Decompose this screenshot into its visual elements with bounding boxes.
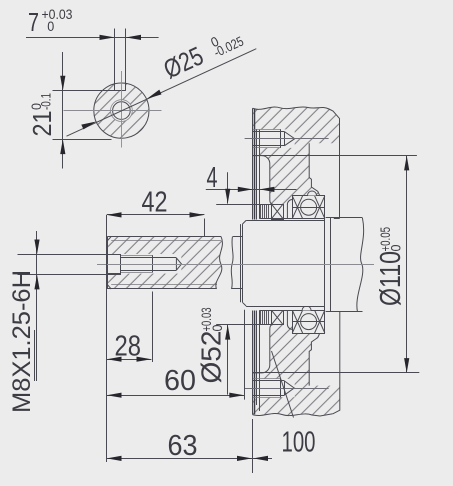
extension line bottom tangent for 21 xyxy=(53,139,112,141)
svg-text:60: 60 xyxy=(164,365,196,397)
hub left chamfers xyxy=(242,220,246,306)
extension line for 28 xyxy=(152,292,154,363)
upper seal retainer lip xyxy=(287,200,292,219)
hub top edge xyxy=(246,220,325,222)
lower ball bearing xyxy=(292,306,325,334)
dimension d110 line xyxy=(406,156,408,373)
svg-text:0: 0 xyxy=(47,19,54,34)
dimension 63 left arrow xyxy=(107,456,122,461)
seal lip hatch lines lower xyxy=(261,310,269,324)
upper bolt hole xyxy=(253,129,295,148)
dimension 21 top arrow xyxy=(60,76,65,91)
main axis centerline xyxy=(97,264,374,266)
seal lip hatch lines upper xyxy=(261,204,269,218)
upper pocket profile xyxy=(253,156,273,205)
hub/bearing right edge xyxy=(324,196,326,333)
dimension 21 line xyxy=(62,52,64,169)
svg-text:100: 100 xyxy=(282,427,316,459)
leader arrow lower-left on circle xyxy=(81,122,96,130)
seal package top line lower xyxy=(260,310,293,312)
extension line for 63/100 xyxy=(252,419,254,473)
upper bolt hole white-out xyxy=(253,129,295,148)
M8 bottom arrow xyxy=(34,275,39,290)
dimension M8 extension bottom xyxy=(18,274,122,276)
svg-text:Ø110: Ø110 xyxy=(375,251,407,306)
dimension d52 upper line xyxy=(227,172,229,203)
shaft stub wavy edge xyxy=(231,236,233,289)
shaft stub bottom line xyxy=(232,288,243,290)
keyway slot right edge / extension line xyxy=(125,29,127,91)
shaft top chamfer xyxy=(107,236,111,240)
cover face line 1 xyxy=(252,108,254,219)
dimension 42 line xyxy=(107,214,205,216)
dimension 63 line xyxy=(107,458,272,460)
hub left face xyxy=(242,224,244,302)
dimension M8 vertical line xyxy=(36,231,38,381)
upper ball bearing xyxy=(292,191,325,219)
crank web face xyxy=(330,218,332,312)
seal bore upper edge (d52 top face) xyxy=(216,204,271,206)
M8 mouth top edge xyxy=(108,254,121,256)
upper boss profile xyxy=(309,143,320,196)
M8 mouth bottom edge xyxy=(108,273,121,275)
M8 thread end xyxy=(152,255,154,272)
shaft bottom chamfer xyxy=(107,285,111,289)
M8 thread circle (end view, thin) xyxy=(111,100,133,122)
seal package bottom line upper xyxy=(260,218,293,220)
lower cover inner wall slant edge xyxy=(272,351,294,418)
shaft chamfer line top xyxy=(111,240,221,242)
d52 lower arrow xyxy=(225,325,230,340)
dimension 7 right arrow xyxy=(126,35,141,40)
left extension line (shaft face) xyxy=(106,215,108,462)
dimension 28 line xyxy=(107,359,152,361)
dimension 4 right arrow xyxy=(260,187,275,192)
keyway flat line with 21-dim extension xyxy=(53,90,126,92)
d110 bottom arrow xyxy=(404,358,409,373)
lower bolt hole centerline xyxy=(244,388,328,390)
cover bottom wavy break edge xyxy=(253,413,333,416)
crankcase wall line lower xyxy=(333,312,340,414)
svg-text:0: 0 xyxy=(210,325,225,332)
dimension 28 left arrow xyxy=(107,357,122,362)
svg-text:4: 4 xyxy=(207,162,218,194)
hub white block xyxy=(242,220,324,306)
d52 upper arrow xyxy=(225,189,230,204)
dimension 63 right arrow xyxy=(237,456,252,461)
end view vertical centerline xyxy=(121,71,123,148)
M8 thread top line (thin) xyxy=(121,255,153,257)
M8 mouth chamfer xyxy=(120,254,122,274)
dimension 4 left arrow xyxy=(238,187,253,192)
M8 top arrow xyxy=(34,240,39,255)
washer line left of hub xyxy=(240,224,242,302)
M8 drill end and point xyxy=(176,258,181,270)
shaft chamfer line bottom xyxy=(111,284,217,286)
end view horizontal centerline xyxy=(64,110,162,112)
crankcase cover hatched section lower half xyxy=(253,325,340,416)
d110 bottom extension line xyxy=(253,372,420,374)
extension line for 42 right xyxy=(204,219,206,237)
svg-text:28: 28 xyxy=(115,331,142,363)
leader line for diameter 25 xyxy=(67,49,257,137)
dimension 60 left arrow xyxy=(107,393,122,398)
d110 top arrow xyxy=(404,156,409,171)
dimension 60 line xyxy=(107,395,244,397)
shaft hatched section xyxy=(107,236,222,289)
lower boss profile xyxy=(309,333,320,386)
svg-text:+0.03: +0.03 xyxy=(42,7,73,22)
svg-text:M8X1.25-6H: M8X1.25-6H xyxy=(8,270,36,413)
dimension 28 right arrow xyxy=(137,357,152,362)
M8 tapped hole white-out xyxy=(108,254,181,274)
hub bottom edge xyxy=(246,306,325,308)
M8 drill top line xyxy=(121,257,176,259)
dimension 7 left arrow xyxy=(100,35,115,40)
extension line for 60 xyxy=(244,310,246,400)
d110 top extension line xyxy=(253,155,417,157)
svg-text:21: 21 xyxy=(27,111,57,137)
seal bore lower edge (d52 bottom face) xyxy=(216,324,271,326)
lower pocket profile xyxy=(253,325,273,373)
dimension 21 bottom arrow xyxy=(60,139,65,154)
cover face line 2 (thick) xyxy=(254,109,256,220)
dimension 7 line xyxy=(26,37,159,39)
svg-text:7: 7 xyxy=(28,7,39,37)
dimension 100 left arrow xyxy=(253,456,268,461)
crankcase bore ledge segment xyxy=(334,218,340,220)
cover face line 3 xyxy=(256,129,258,219)
shaft break wavy edge xyxy=(216,236,223,289)
svg-text:42: 42 xyxy=(142,187,168,219)
cover top wavy break edge xyxy=(253,107,340,119)
shaft stub top line xyxy=(233,236,242,238)
journal break wavy edge xyxy=(357,218,364,312)
crankcase cover hatched section upper half xyxy=(253,107,340,204)
dimension d52 lower line xyxy=(227,325,229,395)
upper bolt hole centerline xyxy=(245,138,329,140)
crankcase wall line upper xyxy=(339,119,341,218)
label underline xyxy=(34,330,36,381)
dimension 60 right arrow xyxy=(229,393,244,398)
svg-text:-0.1: -0.1 xyxy=(39,93,54,110)
keyway slot left edge / extension line xyxy=(114,29,116,91)
dimension 42 right arrow xyxy=(190,212,205,217)
shaft top outline xyxy=(107,236,221,238)
lower bolt hole xyxy=(253,379,294,398)
lower seal retainer lip xyxy=(287,310,292,329)
M8 thread bottom line (thin) xyxy=(121,272,153,274)
dimension 42 left arrow xyxy=(107,212,122,217)
lower oil seal X box xyxy=(272,310,284,324)
svg-text:63: 63 xyxy=(168,430,198,462)
M8 bore circle (end view) xyxy=(113,102,131,120)
journal top edge xyxy=(326,217,363,219)
leader arrow upper-right on circle xyxy=(147,90,162,99)
shaft left face xyxy=(107,236,109,289)
lower bolt hole white-out xyxy=(253,379,295,397)
svg-text:Ø52: Ø52 xyxy=(196,331,227,384)
shaft end-view hatched disc xyxy=(94,81,149,139)
shaft bottom outline xyxy=(107,288,216,290)
dimension 4 line xyxy=(206,189,297,191)
dimension M8 extension top xyxy=(18,254,122,256)
cover face line 4 xyxy=(259,129,261,218)
svg-text:0: 0 xyxy=(389,245,404,252)
journal bottom edge xyxy=(326,311,363,313)
M8 drill bottom line xyxy=(121,270,176,272)
upper oil seal X box xyxy=(272,204,284,219)
